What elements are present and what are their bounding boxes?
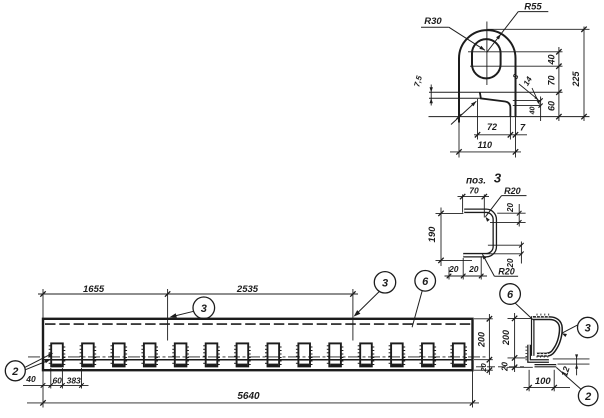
svg-text:3: 3: [494, 171, 502, 186]
section part 2 angle: [529, 345, 549, 361]
clip plate 7 with welds: [234, 343, 251, 366]
clip plate 14 with welds: [450, 343, 467, 366]
dim 72 and 7: [474, 99, 527, 140]
svg-text:110: 110: [478, 140, 492, 150]
svg-text:20: 20: [468, 264, 479, 274]
profile pos.3 bent strip: [463, 211, 495, 255]
lug hole tangent line lower: [470, 65, 563, 67]
svg-text:1655: 1655: [83, 284, 105, 295]
dim 5640: [27, 370, 479, 407]
svg-text:200: 200: [476, 332, 486, 348]
svg-text:3: 3: [201, 303, 207, 315]
balloon 3 first: [170, 297, 215, 319]
svg-text:6: 6: [422, 276, 429, 288]
clip plate 11 with welds: [358, 343, 375, 366]
balloon 6 section: [500, 284, 533, 320]
section dim 12: [553, 354, 590, 377]
lug bottom cut line: [429, 114, 590, 119]
clip plate 9 with welds: [296, 343, 313, 366]
label R30: [421, 16, 485, 50]
dim line 1655 2535: [38, 284, 358, 341]
dims 40 60 383: [23, 368, 89, 389]
svg-text:20: 20: [479, 363, 488, 373]
beam hidden dashed line: [45, 323, 471, 325]
clip plate 1 with welds: [49, 343, 66, 366]
svg-text:20: 20: [448, 264, 459, 274]
clip plate 13 with welds: [420, 343, 437, 366]
svg-text:2535: 2535: [236, 284, 259, 295]
svg-text:100: 100: [535, 376, 552, 387]
svg-text:225: 225: [571, 71, 581, 88]
clip plate 12 with welds: [389, 343, 406, 366]
svg-text:200: 200: [501, 330, 511, 346]
apex extension line: [488, 28, 590, 30]
dims 20 20 bottom: [445, 258, 488, 280]
dim 70 top: [458, 186, 490, 218]
dim 20 bottom right: [487, 242, 524, 269]
svg-text:60: 60: [52, 375, 62, 385]
lug horizontal line at contour top: [429, 91, 563, 93]
dim 190 left: [427, 208, 472, 267]
beam centerline: [28, 356, 487, 358]
svg-text:40: 40: [546, 54, 556, 65]
svg-text:70: 70: [469, 186, 479, 196]
svg-text:40: 40: [530, 107, 537, 116]
clip plate 4 with welds: [141, 343, 158, 366]
svg-text:40: 40: [25, 374, 36, 384]
dim 225: [571, 27, 587, 122]
svg-text:72: 72: [487, 122, 497, 132]
label poz. 3: [466, 171, 502, 187]
svg-text:R30: R30: [424, 16, 442, 27]
svg-text:20: 20: [506, 203, 515, 213]
clip plate 6 with welds: [203, 343, 220, 366]
weld leader diagonal: [451, 101, 476, 124]
lug hole (obround R30): [472, 39, 501, 78]
lug inner contour (insert plate): [480, 92, 511, 139]
svg-text:60: 60: [546, 101, 556, 111]
balloon 6 beam: [412, 271, 435, 328]
svg-text:6: 6: [507, 289, 514, 301]
balloon 2 beam: [5, 353, 53, 381]
svg-text:190: 190: [427, 226, 438, 243]
svg-text:2: 2: [11, 366, 18, 378]
dim 110: [450, 140, 521, 155]
section part 2 plate: [535, 364, 557, 367]
section bottom weld ticks: [537, 353, 548, 357]
svg-text:3: 3: [382, 278, 388, 290]
beam outline: [43, 319, 473, 370]
clip plate 2 with welds: [80, 343, 97, 366]
label R20 top: [485, 186, 526, 222]
label R20 bottom: [482, 254, 518, 276]
balloon 3 section: [562, 317, 598, 337]
svg-text:383: 383: [67, 376, 81, 386]
dims 8 and 14 cluster: [511, 72, 543, 121]
dim 7.5 left: [412, 74, 433, 105]
balloon 2 section: [556, 367, 598, 405]
lug vertical centerline: [486, 22, 488, 86]
section part 6 flat bar: [531, 316, 535, 356]
beam right dims 200 20: [474, 314, 493, 375]
svg-text:70: 70: [546, 75, 556, 85]
label R55: [487, 2, 549, 53]
section top weld ticks: [537, 314, 549, 318]
clip plate 8 with welds: [265, 343, 282, 366]
lug plate outline: [459, 30, 516, 157]
svg-text:R20: R20: [504, 186, 521, 196]
dim stack 40 70 60: [546, 47, 561, 121]
svg-text:R55: R55: [524, 2, 542, 13]
lug horizontal line below (7.5 ref): [429, 97, 480, 99]
svg-text:2: 2: [584, 391, 591, 403]
clip plate 10 with welds: [327, 343, 344, 366]
balloon 3 second: [354, 272, 396, 317]
svg-text:3: 3: [585, 323, 591, 335]
svg-text:20: 20: [506, 258, 515, 268]
lug hole tangent line upper: [468, 51, 563, 53]
section part 3 profile: [533, 318, 561, 355]
clip plate 3 with welds: [111, 343, 128, 366]
beam angle edge line: [43, 359, 473, 361]
section left dims 200 20: [501, 313, 533, 372]
clip plate 5 with welds: [172, 343, 189, 366]
section connector dash line: [476, 366, 524, 368]
section angle weld ticks: [525, 347, 527, 360]
section dim 100: [524, 370, 571, 392]
svg-text:7: 7: [520, 123, 526, 134]
svg-text:5640: 5640: [237, 391, 260, 402]
dim 20 top right: [490, 203, 526, 227]
